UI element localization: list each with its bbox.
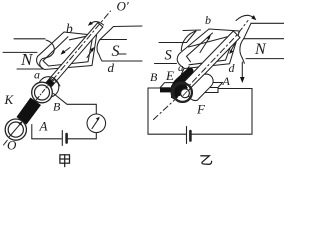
battery cell right figure xyxy=(186,127,188,144)
magnet S stub edge xyxy=(118,53,126,55)
magnet S middle edge xyxy=(100,39,127,41)
caption glyph yi xyxy=(201,156,212,165)
magnet S2 top edge xyxy=(183,29,201,32)
svg-text:a: a xyxy=(34,68,40,82)
brush contact wedge near ring B xyxy=(44,79,55,90)
svg-text:F: F xyxy=(196,102,206,117)
svg-text:b: b xyxy=(66,21,73,36)
shaft rod right xyxy=(181,31,240,91)
magnet N pole face xyxy=(40,40,55,69)
coil2 leads to commutator xyxy=(182,67,190,75)
brush A2 front face xyxy=(203,88,218,93)
current arrow on coil2 side cd xyxy=(231,44,236,52)
axis mark inside ring B xyxy=(37,86,49,100)
shaft rod xyxy=(40,23,103,95)
magnet N2 bottom edge xyxy=(246,58,284,60)
coil back edge xyxy=(70,35,94,40)
brush B2 tip xyxy=(171,86,178,99)
current arrow on coil2 side ab xyxy=(200,38,210,53)
magnet S bottom edge xyxy=(102,60,142,62)
coil abcd inner edges xyxy=(43,35,93,66)
magnet S2 front top edge xyxy=(159,42,187,44)
svg-text:S: S xyxy=(165,48,173,64)
commutator white half shell xyxy=(188,74,213,100)
battery cell left figure xyxy=(61,131,63,146)
slip ring A (front, lower) xyxy=(5,119,26,140)
magnet S2 bottom edge xyxy=(155,63,177,65)
magnet N2 top edge xyxy=(251,22,284,24)
hatch on back ring rim xyxy=(50,78,60,87)
magnet N (left block) top edge xyxy=(14,38,45,40)
current arrow on side ab xyxy=(63,48,71,54)
brush A2 (right) top face xyxy=(203,83,223,88)
svg-text:O: O xyxy=(7,138,17,153)
svg-text:S: S xyxy=(112,43,120,60)
brush B2 (left) top face xyxy=(160,83,177,88)
magnet S (right block of left figure) top slant xyxy=(100,27,114,41)
commutator ring black left arc xyxy=(172,83,184,97)
magnet S pole face xyxy=(97,40,102,62)
magnet N2 middle edge xyxy=(244,38,284,40)
magnet S2 end slant xyxy=(187,31,197,43)
rotation axis O-O' dash-dot xyxy=(4,11,111,145)
rotation curved arrow right xyxy=(236,15,254,20)
black sleeve on shaft xyxy=(17,98,42,125)
commutator black half shell xyxy=(171,67,194,97)
svg-text:E: E xyxy=(165,68,174,83)
svg-text:a: a xyxy=(178,62,184,74)
motion arrow down near d xyxy=(241,62,243,78)
magnet S2 pole face xyxy=(181,31,196,51)
wire galvanometer bottom xyxy=(68,133,97,139)
brush B2 front face xyxy=(160,88,173,93)
svg-text:d: d xyxy=(229,61,236,75)
magnet N2 pole face xyxy=(240,39,244,64)
wire battery to brush A2 xyxy=(191,89,252,135)
svg-text:A: A xyxy=(39,119,48,134)
coil2 back edge xyxy=(189,35,236,47)
back ring behind B xyxy=(38,77,59,98)
wire battery to sleeve xyxy=(32,125,62,139)
magnet N2 slant xyxy=(244,23,251,38)
magnet N bottom edge xyxy=(17,68,43,70)
svg-text:N: N xyxy=(20,50,34,69)
axis mark inside ring A xyxy=(10,123,22,137)
svg-text:B: B xyxy=(150,70,158,84)
caption glyph jia xyxy=(60,155,70,167)
svg-text:N: N xyxy=(254,41,267,58)
wire from ring B to galvanometer xyxy=(54,94,97,115)
svg-text:O′: O′ xyxy=(117,0,129,14)
svg-text:b: b xyxy=(205,13,211,27)
rotation direction curved arrow xyxy=(90,22,104,25)
coil2 outer loop xyxy=(177,29,239,69)
svg-text:B: B xyxy=(53,100,61,114)
commutator inner hole xyxy=(181,89,190,98)
current arrow on side cd xyxy=(87,49,93,58)
magnet S top edge xyxy=(114,25,143,28)
galvanometer xyxy=(87,114,106,133)
coil abcd outer loop xyxy=(37,32,97,70)
rotation axis dash-dot right xyxy=(154,21,249,120)
commutator front ring xyxy=(173,83,192,102)
slip ring B (front, upper) xyxy=(32,82,53,103)
coil2 inner edges xyxy=(187,33,236,65)
wire brush B2 to circuit xyxy=(148,88,186,134)
svg-text:A: A xyxy=(222,74,231,88)
svg-text:K: K xyxy=(4,92,15,107)
svg-text:d: d xyxy=(108,60,115,75)
magnet N middle edge xyxy=(3,51,37,53)
